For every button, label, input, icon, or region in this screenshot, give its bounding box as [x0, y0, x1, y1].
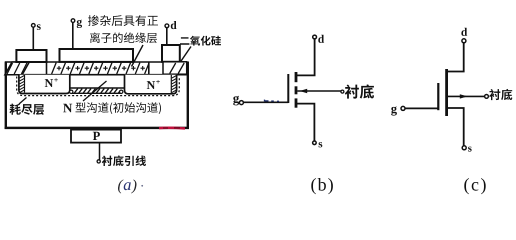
label: SiO2 二氧化硅 — [180, 36, 221, 46]
gate metal electrode box — [60, 49, 134, 62]
substrate terminal circle — [97, 160, 100, 163]
terminal s circle — [32, 24, 36, 28]
label: doped insulator line1 掺杂后具有正 — [88, 15, 158, 26]
symbol b: substrate label 衬底 — [345, 84, 374, 98]
label: N of N-channel — [63, 104, 72, 113]
right N+ label — [147, 81, 155, 89]
label: substrate lead 衬底引线 — [102, 155, 146, 166]
left oxide parallelogram (hatched) — [5, 62, 29, 75]
right oxide box (SiO2, hatched) — [163, 62, 187, 74]
symbol c: terminal s circle — [462, 146, 466, 150]
caption (c) — [464, 178, 485, 194]
symbol b: s label — [319, 142, 323, 147]
right wall hatch — [172, 76, 177, 93]
symbol c: gate lead wire — [405, 107, 438, 109]
symbol c: gate bar — [437, 83, 439, 110]
channel end rounded hook left — [70, 90, 73, 93]
right oxide hatch — [170, 63, 185, 74]
symbol b: terminal d circle — [313, 35, 317, 39]
channel hatch — [74, 89, 120, 93]
symbol c: terminal d circle — [462, 39, 466, 43]
pointer line from SiO2 label — [181, 47, 192, 62]
P label — [93, 132, 100, 140]
label: line2 离子的绝缘层 — [90, 32, 157, 43]
caption (a) — [118, 179, 124, 193]
terminal g circle — [71, 19, 75, 23]
pointer line from depletion label — [19, 98, 27, 105]
symbol b: terminal g circle — [239, 101, 243, 105]
N channel strip bottom line — [71, 92, 122, 94]
left N+ well box — [19, 75, 70, 94]
left contact side wall hatch strip — [24, 75, 26, 93]
symbol b: substrate wire — [297, 90, 341, 92]
symbol c: channel bar (solid, depletion) — [445, 69, 448, 116]
symbol b: blue dash artifacts — [265, 100, 280, 102]
left wall hatch — [20, 76, 25, 93]
symbol c: d label — [461, 28, 467, 36]
right contact side wall hatch strip — [170, 75, 172, 94]
substrate lead wire — [99, 143, 101, 160]
symbol b: channel segment top — [295, 72, 298, 82]
N channel strip top line — [70, 87, 125, 89]
channel end rounded hook right — [120, 90, 123, 93]
source metal electrode box — [16, 50, 46, 62]
terminal s lead — [32, 28, 34, 51]
symbol c: substrate arrow (points right) — [460, 94, 468, 98]
symbol b: g label — [233, 96, 239, 106]
oxide + strip hatch — [52, 63, 149, 74]
terminal d lead — [166, 28, 168, 45]
d contact window left border — [148, 62, 150, 75]
terminal d label — [171, 21, 177, 29]
symbol c: s label — [468, 147, 472, 152]
left N+ label plus — [54, 78, 58, 82]
symbol b: terminal s circle — [313, 141, 317, 145]
symbol c: substrate terminal circle — [485, 95, 489, 99]
oxide bottom / body top line — [5, 74, 189, 76]
symbol b: channel segment mid — [295, 86, 298, 94]
s contact window right border — [46, 62, 48, 75]
terminal s label — [37, 24, 41, 30]
symbol b: substrate terminal circle — [341, 90, 344, 93]
pointer line from channel label — [83, 81, 107, 101]
P region box — [71, 130, 121, 143]
right N+ well box — [125, 75, 177, 94]
plus ion marks in oxide — [57, 66, 145, 70]
symbol c: substrate label 衬底 — [489, 89, 512, 100]
symbol b: d label — [318, 35, 324, 43]
left N+ label — [45, 79, 53, 87]
right N+ label plus — [156, 80, 160, 84]
symbol b: substrate arrow (points left into channel) — [300, 89, 308, 93]
symbol b: gate lead wire — [243, 101, 288, 103]
pointer line from insulator label to oxide — [132, 45, 144, 67]
red underline artifact — [159, 127, 185, 130]
terminal d circle — [165, 24, 169, 28]
symbol b: source stub and lead — [297, 104, 314, 141]
caption (b) — [311, 178, 333, 194]
symbol c: g label — [391, 106, 397, 115]
symbol c: terminal g circle — [401, 106, 405, 110]
depletion layer dashed boundary — [17, 77, 180, 96]
terminal g label — [77, 20, 82, 28]
P substrate body outline — [6, 62, 188, 128]
body bottom thick edge — [5, 127, 189, 129]
oxide top line y=62 — [5, 61, 163, 63]
terminal g lead — [72, 23, 74, 50]
left oxide hatch — [7, 63, 30, 74]
symbol b: channel segment bottom — [295, 98, 298, 107]
symbol c: drain stub and lead — [448, 43, 464, 72]
symbol b: drain stub and lead — [297, 39, 315, 75]
symbol c: substrate wire — [448, 95, 485, 97]
label: depletion layer 耗尽层 — [10, 104, 45, 115]
symbol c: source stub and lead — [448, 108, 464, 146]
symbol b: gate bar — [287, 74, 289, 103]
drain metal electrode box — [162, 45, 180, 62]
